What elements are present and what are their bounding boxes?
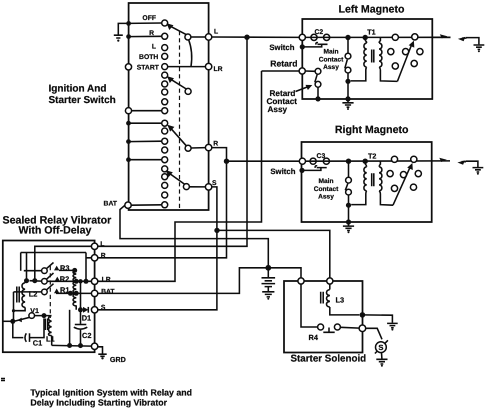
node: OFF feed dot [126, 21, 131, 26]
resistor R1 [73, 293, 76, 310]
wire BAT row internal [56, 292, 91, 294]
svg-text:START: START [137, 64, 160, 71]
vibrator enclosure [3, 241, 95, 353]
svg-text:L2: L2 [29, 290, 38, 299]
mechanical dashed line (relay) [49, 266, 51, 318]
start button S with ground [366, 328, 388, 367]
diode D1 on S row [78, 307, 88, 313]
contact R4 [301, 284, 359, 332]
svg-text:T2: T2 [368, 151, 376, 160]
coil L1 [45, 316, 51, 346]
svg-text:R4: R4 [309, 333, 319, 342]
node battery junction [265, 265, 271, 271]
svg-text:Main: Main [323, 49, 338, 56]
svg-text:C2: C2 [82, 331, 91, 340]
svg-text:Delay Including Starting Vibra: Delay Including Starting Vibrator [30, 398, 167, 408]
coil L2 [14, 281, 27, 311]
wire BAT terminal to contact [131, 204, 162, 206]
svg-text:BAT: BAT [104, 200, 118, 207]
wire V1 to L1 [35, 315, 52, 317]
ground at left spark gap [474, 45, 485, 52]
svg-text:R: R [101, 252, 106, 259]
right magneto enclosure [302, 142, 432, 222]
wire S row left leg [69, 310, 71, 346]
resistor R3 [59, 268, 77, 281]
svg-text:S: S [101, 304, 106, 311]
svg-text:Left Magneto: Left Magneto [339, 4, 405, 16]
svg-text:Assy: Assy [318, 194, 334, 201]
svg-text:Contact: Contact [319, 56, 344, 63]
label: Main Contact Assy (right) [314, 178, 339, 201]
terminal LR (vibrator) [91, 278, 97, 284]
svg-text:S: S [378, 343, 383, 352]
relay contact K1c [14, 284, 54, 295]
label: Ignition And Starter Switch [49, 84, 116, 106]
starter solenoid enclosure [284, 281, 363, 353]
svg-text:BOTH: BOTH [139, 54, 158, 61]
stray mark bottom left [1, 379, 5, 381]
wire across right magneto top [306, 160, 451, 162]
left edge taps [125, 108, 161, 163]
wire battery junction to vibrator BAT row [98, 268, 268, 294]
terminal R (vibrator) [91, 255, 97, 261]
wire L net: switch L to left magneto switch [212, 36, 302, 38]
label: Main Contact Assy (left) [319, 49, 344, 72]
svg-text:LR: LR [214, 66, 223, 73]
node R junction to right magneto [224, 159, 229, 164]
wire W1 pivot to L terminal [191, 36, 206, 38]
node LR junctions [74, 279, 79, 284]
fixed contact R3 [54, 266, 59, 271]
svg-text:With Off-Delay: With Off-Delay [19, 225, 92, 237]
wire battery junction to solenoid terminal [268, 268, 301, 278]
distributor circles (right) [387, 156, 421, 191]
spark gap output (left) [432, 34, 479, 44]
transformer T1 [351, 35, 398, 82]
terminal BAT (vibrator) [91, 290, 97, 296]
wire R net: switch R right then down [98, 148, 227, 258]
ground at right spark gap [473, 168, 484, 175]
wire S net: switch S down to junction [98, 187, 217, 310]
node: R feed dot [126, 34, 131, 39]
wire C2 branch from LR row [80, 281, 82, 324]
svg-text:L: L [100, 241, 104, 248]
main contact points (left magneto) [345, 35, 351, 102]
terminal: solenoid output to start button [359, 325, 366, 332]
svg-text:OFF: OFF [142, 15, 156, 22]
svg-text:Assy: Assy [323, 64, 339, 71]
contact circles column [162, 20, 168, 208]
resistor R2 [73, 281, 76, 293]
svg-text:Starter Switch: Starter Switch [49, 95, 116, 106]
wire R branch to right magneto switch [227, 160, 300, 162]
svg-text:Switch: Switch [270, 167, 295, 176]
svg-text:Switch: Switch [269, 43, 294, 52]
fixed contact R1 [54, 289, 59, 294]
svg-text:L1: L1 [46, 334, 55, 343]
wire S branch to starter solenoid [217, 230, 330, 278]
terminal L (switch output) [205, 34, 211, 40]
retard contact assy points [305, 68, 321, 101]
terminal: right magneto switch input [299, 158, 305, 164]
terminal: left magneto switch input [299, 34, 305, 40]
svg-text:T1: T1 [367, 28, 375, 37]
label: Sealed Relay Vibrator With Off-Delay [3, 215, 112, 237]
terminal R (switch output) [205, 144, 211, 150]
rotor arm (right) [393, 163, 413, 205]
bottom rail to GRD [52, 343, 92, 348]
capacitor C3 terminals on wire [310, 158, 316, 164]
capacitor C1 [13, 313, 47, 342]
relay contact K1a [24, 263, 54, 274]
main contact points (right magneto) [345, 159, 351, 225]
wire LR net: vibrator LR up and over to retard [98, 71, 262, 281]
terminal: solenoid S input [327, 278, 333, 284]
ground at switch top-left [114, 23, 129, 41]
svg-text:GRD: GRD [110, 355, 126, 364]
wire across magneto top [305, 36, 450, 38]
wire retard horizontal into left magneto [262, 70, 300, 72]
capacitor C2 plate to case [300, 42, 328, 49]
wire LR row internal [47, 280, 91, 282]
terminal S (switch output) [205, 184, 211, 190]
coil L3 [321, 284, 360, 315]
node S junction [214, 228, 219, 233]
svg-text:Starter Solenoid: Starter Solenoid [291, 353, 367, 364]
distributor circles (left) [388, 34, 423, 69]
capacitor C3 plate to case [299, 166, 326, 173]
svg-text:C1: C1 [33, 339, 42, 348]
wire L net vertical down to vibrator L row [98, 37, 247, 246]
wiper W2 [167, 76, 191, 94]
svg-text:Contact: Contact [314, 186, 339, 193]
fixed contact R2 [55, 277, 60, 282]
rotor arm (left) [397, 41, 414, 82]
left magneto enclosure [302, 19, 432, 99]
ground right of solenoid [362, 315, 397, 331]
terminal L (vibrator) [91, 243, 97, 249]
svg-text:L: L [214, 29, 218, 36]
wire L row internal [35, 246, 92, 280]
ground below right magneto [343, 222, 354, 233]
relay contact K1b [24, 273, 54, 284]
svg-text:R: R [213, 141, 218, 148]
svg-text:Ignition And: Ignition And [49, 84, 107, 95]
battery B1 with ground [262, 268, 276, 300]
svg-text:D1: D1 [82, 314, 91, 323]
terminal BAT on left edge [125, 202, 131, 208]
switch S1 enclosure [129, 3, 209, 210]
node: coil to case junction [360, 312, 366, 318]
svg-text:S: S [212, 180, 217, 187]
wire OFF row [129, 22, 162, 24]
svg-text:LR: LR [102, 276, 111, 283]
capacitor C2 (vibrator) [74, 325, 88, 346]
ground at GRD [98, 347, 107, 360]
svg-text:BAT: BAT [101, 288, 115, 295]
label Retard Contact Assy with arrow [267, 85, 313, 114]
svg-text:Typical Ignition System with R: Typical Ignition System with Relay and [30, 388, 192, 398]
wire BAT net from switch down and right [120, 205, 268, 268]
svg-text:Retard: Retard [270, 59, 297, 69]
wire R bus internal [21, 253, 92, 282]
wire R row [129, 35, 162, 37]
transformer T2 [351, 159, 393, 206]
svg-text:Assy: Assy [268, 105, 288, 114]
svg-text:L: L [152, 44, 156, 51]
node BAT junctions [68, 291, 73, 296]
node L junction [244, 35, 249, 40]
wire START row to LR terminal [168, 66, 206, 68]
vibrator contact V1 [3, 313, 35, 324]
terminal on left edge (START row) [125, 64, 131, 70]
wiper W3 (R) [167, 125, 205, 152]
terminal: solenoid BAT input [298, 278, 304, 284]
svg-text:Main: Main [318, 178, 333, 185]
spark gap output (right) [439, 158, 478, 167]
wiper W1 (OFF-L) [167, 23, 192, 66]
wiper W4 (S) [166, 170, 206, 189]
terminal LR (switch output) [205, 63, 211, 69]
terminal: retard input [299, 68, 305, 74]
terminal GRD (vibrator) [91, 343, 97, 349]
mechanical dashed line [179, 31, 181, 208]
terminal S (vibrator) [91, 307, 97, 313]
svg-text:L3: L3 [336, 296, 345, 305]
svg-text:Right Magneto: Right Magneto [335, 124, 409, 136]
capacitor C2 terminals on wire [311, 34, 317, 40]
ground below left magneto [342, 99, 353, 110]
wire relay K1c to V1 [13, 292, 15, 321]
